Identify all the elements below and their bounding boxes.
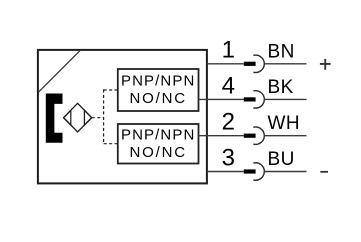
magnet symbol — [46, 94, 63, 143]
svg-text:NO/NC: NO/NC — [130, 144, 187, 161]
svg-text:NO/NC: NO/NC — [130, 90, 187, 107]
svg-text:BK: BK — [268, 77, 294, 98]
wire 4 left segment — [199, 98, 244, 100]
svg-text:3: 3 — [222, 144, 235, 171]
minus supply marker — [320, 171, 328, 173]
dashed wire to block B2 — [104, 143, 118, 145]
plus supply marker — [320, 63, 331, 65]
connector socket 2 — [253, 127, 264, 144]
connector pin 1 — [244, 62, 256, 66]
svg-text:BU: BU — [268, 149, 295, 170]
connector socket 4 — [253, 91, 264, 108]
svg-text:1: 1 — [222, 37, 235, 64]
svg-text:4: 4 — [222, 72, 235, 99]
wire 3 right segment — [265, 171, 307, 173]
svg-text:WH: WH — [268, 113, 300, 134]
right arrow of sensor symbol — [84, 110, 91, 125]
logic block B1 box — [118, 69, 199, 111]
logic block B2 box — [118, 124, 199, 164]
connector socket 1 — [253, 55, 264, 72]
dashed wire from sensor to logic — [92, 117, 104, 119]
svg-text:PNP/NPN: PNP/NPN — [121, 127, 195, 144]
proximity sensor symbol diamond — [64, 103, 92, 132]
svg-text:2: 2 — [222, 109, 235, 136]
left arrow of sensor symbol — [64, 110, 71, 125]
wire 3 left segment — [207, 171, 244, 173]
dashed wire to block B1 — [104, 89, 118, 91]
connector socket 3 — [253, 163, 264, 180]
connector pin 2 — [244, 134, 256, 138]
wire 2 left segment — [199, 135, 244, 137]
sensor body box — [38, 50, 207, 184]
wire 1 right segment — [265, 63, 307, 65]
wire 2 right segment — [265, 135, 307, 137]
svg-text:PNP/NPN: PNP/NPN — [121, 73, 195, 90]
dashed wire vertical branch — [103, 89, 105, 143]
wire 4 right segment — [265, 98, 307, 100]
svg-text:BN: BN — [268, 41, 295, 62]
connector pin 3 — [244, 169, 256, 173]
connector pin 4 — [244, 97, 256, 101]
wire 1 left segment — [207, 63, 244, 65]
chamfer diagonal line — [38, 50, 81, 93]
